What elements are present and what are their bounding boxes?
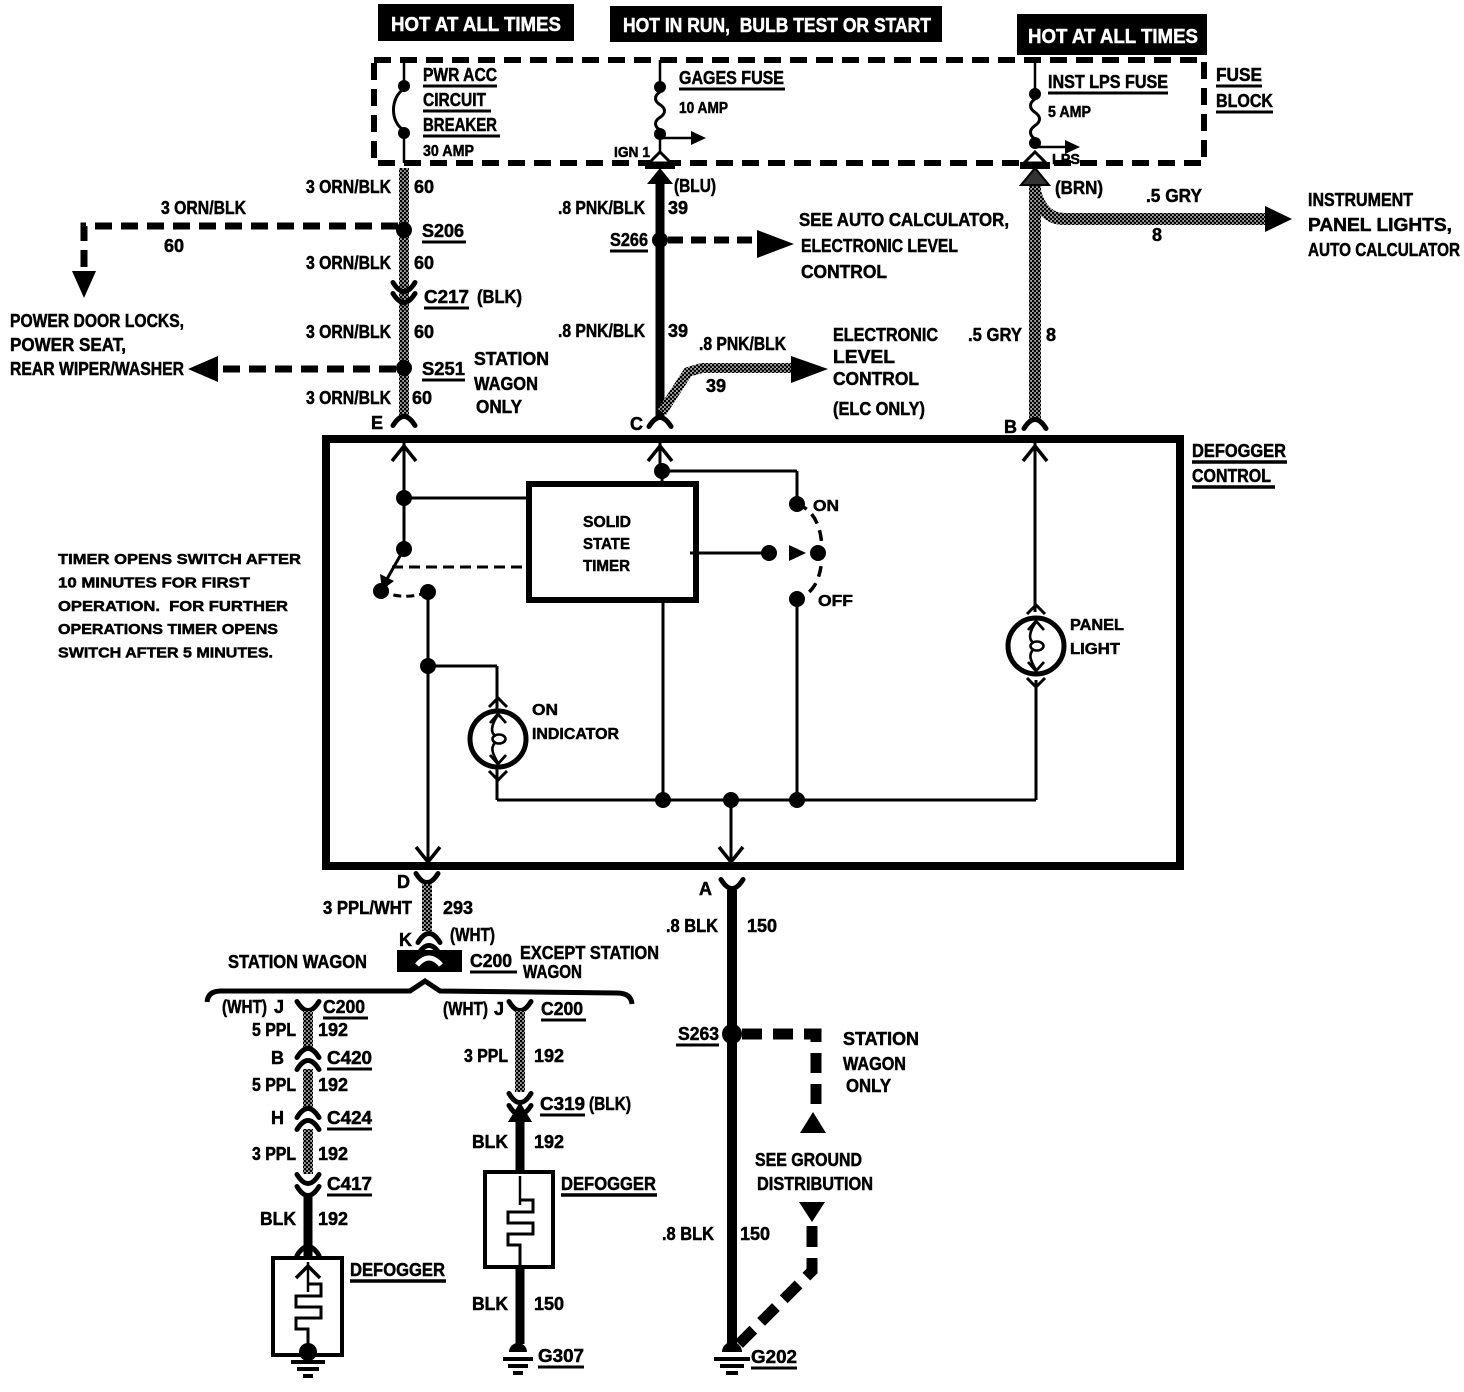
svg-text:TIMER OPENS SWITCH AFTER: TIMER OPENS SWITCH AFTER <box>58 551 301 568</box>
svg-text:H: H <box>271 1108 284 1128</box>
svg-text:S251: S251 <box>422 359 465 379</box>
svg-text:39: 39 <box>706 376 726 396</box>
svg-text:OPERATION. FOR FURTHER: OPERATION. FOR FURTHER <box>58 598 288 615</box>
svg-text:.8 BLK: .8 BLK <box>662 1224 714 1244</box>
svg-text:ON: ON <box>532 702 558 719</box>
svg-text:192: 192 <box>534 1046 564 1066</box>
svg-text:3 ORN/BLK: 3 ORN/BLK <box>306 322 391 342</box>
svg-text:S266: S266 <box>610 230 648 250</box>
svg-text:INST LPS FUSE: INST LPS FUSE <box>1048 72 1168 92</box>
svg-text:3 ORN/BLK: 3 ORN/BLK <box>306 253 391 273</box>
svg-text:C319: C319 <box>540 1094 585 1114</box>
svg-text:CIRCUIT: CIRCUIT <box>423 90 486 110</box>
svg-text:SWITCH AFTER 5 MINUTES.: SWITCH AFTER 5 MINUTES. <box>58 645 273 662</box>
svg-text:STATE: STATE <box>583 536 630 553</box>
svg-text:BREAKER: BREAKER <box>423 115 497 135</box>
svg-text:CONTROL: CONTROL <box>833 369 919 389</box>
svg-text:C420: C420 <box>327 1048 372 1068</box>
svg-text:192: 192 <box>318 1075 348 1095</box>
svg-text:WAGON: WAGON <box>474 374 538 394</box>
svg-text:REAR WIPER/WASHER: REAR WIPER/WASHER <box>10 359 184 379</box>
svg-text:A: A <box>699 879 712 899</box>
svg-text:C424: C424 <box>327 1108 372 1128</box>
svg-text:60: 60 <box>414 177 434 197</box>
svg-text:PANEL LIGHTS,: PANEL LIGHTS, <box>1308 215 1452 235</box>
svg-text:(BLK): (BLK) <box>589 1094 631 1114</box>
svg-text:5 PPL: 5 PPL <box>252 1075 296 1095</box>
svg-text:(BLK): (BLK) <box>477 287 522 307</box>
svg-text:ONLY: ONLY <box>476 397 522 417</box>
svg-text:E: E <box>371 413 383 433</box>
svg-text:60: 60 <box>414 253 434 273</box>
svg-text:IGN 1: IGN 1 <box>614 144 650 161</box>
svg-text:3 ORN/BLK: 3 ORN/BLK <box>306 388 391 408</box>
svg-text:LEVEL: LEVEL <box>833 347 895 367</box>
svg-text:HOT AT ALL TIMES: HOT AT ALL TIMES <box>1028 26 1198 48</box>
svg-text:WAGON: WAGON <box>523 962 582 982</box>
svg-text:60: 60 <box>414 322 434 342</box>
svg-text:39: 39 <box>668 198 688 218</box>
svg-text:192: 192 <box>318 1209 348 1229</box>
svg-text:STATION: STATION <box>843 1029 919 1049</box>
svg-text:TIMER: TIMER <box>583 558 630 575</box>
svg-text:3 PPL: 3 PPL <box>252 1144 296 1164</box>
svg-text:192: 192 <box>534 1132 564 1152</box>
svg-text:STATION WAGON: STATION WAGON <box>228 952 367 972</box>
svg-text:C: C <box>630 414 643 434</box>
svg-text:AUTO CALCULATOR: AUTO CALCULATOR <box>1308 240 1460 260</box>
svg-text:3 PPL: 3 PPL <box>464 1046 508 1066</box>
svg-text:60: 60 <box>164 236 184 256</box>
svg-text:8: 8 <box>1152 225 1162 245</box>
svg-text:K: K <box>399 930 412 950</box>
svg-text:8: 8 <box>1046 325 1056 345</box>
svg-text:HOT IN RUN, BULB TEST OR STAR: HOT IN RUN, BULB TEST OR START <box>623 15 931 37</box>
svg-text:10 AMP: 10 AMP <box>679 100 728 117</box>
svg-text:3 ORN/BLK: 3 ORN/BLK <box>306 177 391 197</box>
svg-text:STATION: STATION <box>474 349 549 369</box>
svg-text:SEE GROUND: SEE GROUND <box>755 1150 862 1170</box>
svg-text:.8 BLK: .8 BLK <box>666 916 718 936</box>
svg-text:C200: C200 <box>323 997 365 1017</box>
svg-text:ELECTRONIC: ELECTRONIC <box>833 325 938 345</box>
svg-text:C200: C200 <box>541 999 583 1019</box>
svg-text:INDICATOR: INDICATOR <box>532 726 619 743</box>
svg-text:DEFOGGER: DEFOGGER <box>350 1260 445 1280</box>
svg-text:.8 PNK/BLK: .8 PNK/BLK <box>558 198 645 218</box>
svg-text:3 PPL/WHT: 3 PPL/WHT <box>323 898 412 918</box>
svg-text:.8 PNK/BLK: .8 PNK/BLK <box>699 334 786 354</box>
svg-text:(WHT): (WHT) <box>450 925 495 945</box>
svg-text:SOLID: SOLID <box>583 514 631 531</box>
svg-text:S263: S263 <box>678 1024 719 1044</box>
svg-text:LPS: LPS <box>1052 151 1080 168</box>
svg-text:LIGHT: LIGHT <box>1070 641 1120 658</box>
svg-text:BLK: BLK <box>472 1294 508 1314</box>
svg-text:POWER SEAT,: POWER SEAT, <box>10 335 126 355</box>
svg-text:S206: S206 <box>422 221 464 241</box>
svg-text:C417: C417 <box>327 1174 372 1194</box>
svg-text:192: 192 <box>318 1020 348 1040</box>
svg-text:5 AMP: 5 AMP <box>1048 104 1091 121</box>
svg-text:150: 150 <box>740 1224 770 1244</box>
svg-text:DEFOGGER: DEFOGGER <box>1192 441 1286 461</box>
svg-text:J: J <box>274 997 284 1017</box>
svg-text:293: 293 <box>443 898 473 918</box>
svg-text:39: 39 <box>668 321 688 341</box>
svg-text:OFF: OFF <box>818 593 853 610</box>
svg-text:ON: ON <box>813 498 839 515</box>
svg-text:OPERATIONS TIMER OPENS: OPERATIONS TIMER OPENS <box>58 621 278 638</box>
svg-text:(ELC ONLY): (ELC ONLY) <box>833 399 925 419</box>
svg-text:EXCEPT STATION: EXCEPT STATION <box>520 943 659 963</box>
svg-text:DEFOGGER: DEFOGGER <box>561 1174 656 1194</box>
svg-text:FUSE: FUSE <box>1216 65 1262 85</box>
svg-text:INSTRUMENT: INSTRUMENT <box>1308 190 1413 210</box>
svg-text:CONTROL: CONTROL <box>1192 466 1271 486</box>
svg-text:BLK: BLK <box>472 1132 508 1152</box>
svg-text:G202: G202 <box>751 1347 797 1367</box>
svg-text:G307: G307 <box>538 1346 584 1366</box>
svg-text:D: D <box>397 872 410 892</box>
svg-text:.5 GRY: .5 GRY <box>968 325 1022 345</box>
svg-text:WAGON: WAGON <box>843 1054 906 1074</box>
svg-text:B: B <box>1004 417 1017 437</box>
svg-text:SEE AUTO CALCULATOR,: SEE AUTO CALCULATOR, <box>799 210 1009 230</box>
svg-text:PWR ACC: PWR ACC <box>423 65 497 85</box>
svg-text:BLK: BLK <box>260 1209 296 1229</box>
svg-text:PANEL: PANEL <box>1070 617 1124 634</box>
svg-text:DISTRIBUTION: DISTRIBUTION <box>757 1174 873 1194</box>
svg-text:GAGES FUSE: GAGES FUSE <box>679 68 784 88</box>
svg-text:60: 60 <box>412 388 432 408</box>
svg-text:192: 192 <box>318 1144 348 1164</box>
svg-text:3 ORN/BLK: 3 ORN/BLK <box>161 198 246 218</box>
svg-text:BLOCK: BLOCK <box>1216 91 1273 111</box>
svg-text:J: J <box>494 999 504 1019</box>
svg-text:(BRN): (BRN) <box>1055 178 1103 198</box>
svg-text:(BLU): (BLU) <box>674 176 716 196</box>
svg-text:(WHT): (WHT) <box>443 999 488 1019</box>
svg-text:POWER DOOR LOCKS,: POWER DOOR LOCKS, <box>10 311 184 331</box>
svg-text:C217: C217 <box>424 287 469 307</box>
svg-text:(WHT): (WHT) <box>222 997 267 1017</box>
svg-text:.5 GRY: .5 GRY <box>1146 186 1202 206</box>
svg-text:HOT AT ALL TIMES: HOT AT ALL TIMES <box>391 14 561 36</box>
svg-text:CONTROL: CONTROL <box>801 262 887 282</box>
svg-text:B: B <box>271 1048 284 1068</box>
svg-text:150: 150 <box>534 1294 564 1314</box>
svg-text:C200: C200 <box>470 951 512 971</box>
svg-text:30 AMP: 30 AMP <box>423 143 474 160</box>
svg-text:150: 150 <box>747 916 777 936</box>
svg-text:.8 PNK/BLK: .8 PNK/BLK <box>558 321 645 341</box>
svg-text:ELECTRONIC LEVEL: ELECTRONIC LEVEL <box>801 236 958 256</box>
svg-text:10 MINUTES FOR FIRST: 10 MINUTES FOR FIRST <box>58 574 250 591</box>
svg-text:ONLY: ONLY <box>846 1076 891 1096</box>
svg-text:5 PPL: 5 PPL <box>252 1020 296 1040</box>
